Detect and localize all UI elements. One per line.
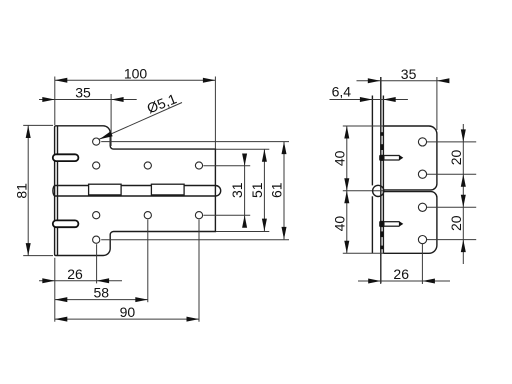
svg-text:81: 81 (13, 183, 29, 199)
dimension 6,4 (330, 99, 408, 101)
dimension 51 (263, 149, 265, 231)
tab side lower (379, 221, 384, 227)
svg-text:40: 40 (331, 216, 347, 232)
dimension 40 top (346, 126, 348, 253)
svg-text:20: 20 (448, 215, 464, 231)
slot tab lower left (53, 220, 79, 227)
knuckle segment 4 (151, 184, 184, 195)
curl tangent line side view (371, 96, 373, 186)
svg-text:26: 26 (67, 266, 83, 282)
dimension 90 (55, 318, 199, 320)
dimension 40 bottom (344, 191, 349, 204)
barrel circle side (373, 185, 384, 196)
svg-text:31: 31 (229, 182, 245, 198)
svg-text:40: 40 (331, 150, 347, 166)
extension lines side (436, 77, 438, 130)
bottom flange outline (383, 192, 437, 254)
svg-text:35: 35 (401, 66, 417, 82)
dimension 31 (244, 154, 246, 226)
dimension 61 (283, 142, 285, 240)
dimension 100 (55, 79, 216, 81)
dimension 58 (55, 299, 148, 301)
svg-text:90: 90 (120, 304, 136, 320)
svg-text:100: 100 (124, 65, 148, 81)
svg-text:20: 20 (448, 150, 464, 166)
flange bottom edge extension (343, 252, 384, 254)
svg-text:26: 26 (393, 266, 409, 282)
holes front view (93, 138, 100, 145)
dimension 26 front (39, 280, 122, 282)
svg-text:51: 51 (249, 182, 265, 198)
leader diameter 5,1 (99, 103, 182, 140)
top flange outline (383, 126, 437, 190)
plate right face (382, 96, 384, 254)
tab side upper (379, 155, 384, 161)
dimension 81 (27, 126, 29, 256)
svg-text:58: 58 (94, 285, 110, 301)
part outline front view (55, 126, 216, 256)
dimension 35 side (357, 80, 450, 82)
extension lines front (23, 124, 53, 126)
mid extension line (343, 190, 384, 192)
dimension 20 bottom (461, 195, 466, 208)
flange holes (418, 138, 426, 146)
svg-text:61: 61 (268, 182, 284, 198)
hidden hole mark lower (380, 231, 383, 237)
slot tab upper left (53, 154, 79, 161)
dimension 20 top (462, 124, 464, 264)
hidden hole mark upper (380, 132, 383, 136)
knuckle segment 2 (89, 184, 122, 195)
svg-text:35: 35 (75, 85, 91, 101)
dimension 26 side (358, 280, 450, 282)
bend line left flange (57, 126, 59, 256)
hinge barrel front (53, 186, 221, 197)
dimension 35 front (39, 99, 137, 101)
flange top edge extension (343, 125, 384, 127)
svg-text:6,4: 6,4 (332, 83, 352, 99)
plate left face (380, 77, 382, 283)
